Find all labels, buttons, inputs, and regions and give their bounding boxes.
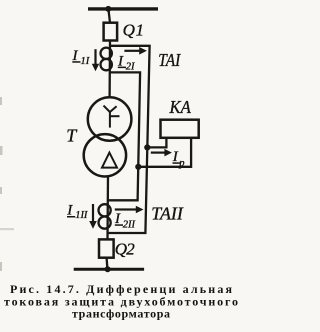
wire: transformer to TAII [106,176,109,240]
svg-text:p: p [178,158,184,169]
current arrow Ip (relay current) [151,149,172,157]
svg-text:TAII: TAII [151,204,184,224]
wire: relay left terminal down and to node on outer run [147,138,166,148]
svg-text:1II: 1II [75,210,88,221]
node: relay right to wire junction [135,164,141,170]
relay KA box [161,120,199,138]
current arrow I2II (right, secondary TAII) [115,206,144,214]
wye (star) symbol inside primary [104,106,120,128]
bus bar (top supply busbar) [88,7,158,10]
wire: relay right terminal down and to node on inner run [138,138,191,167]
current arrow I2I (right, secondary TA1) [124,47,146,55]
wire: busbar to Q1 [108,9,110,23]
transformer T primary winding circle [88,97,132,141]
wire: Q1 to transformer primary [108,41,111,99]
svg-text:2II: 2II [123,219,136,230]
svg-text:2I: 2I [126,61,135,72]
faint scan marks (left edge) [0,97,14,271]
junction dot on bottom busbar [105,266,111,272]
current transformer TA1 (primary winding loops) [101,48,112,59]
transformer T secondary winding circle [84,134,126,176]
svg-text:KA: KA [169,97,192,117]
wire: Q2 to bottom busbar [105,258,108,269]
current arrow I1I (down) [92,49,99,71]
wire: TA1 secondary terminal b (bottom) to inner vertical run [108,72,140,200]
svg-text:Q1: Q1 [123,20,144,39]
svg-text:TAI: TAI [158,50,181,70]
svg-text:трансформатора: трансформатора [72,307,170,321]
junction dot on top busbar [105,6,111,12]
node: relay left to wire junction [144,144,150,150]
current arrow I1II (down) [89,204,97,229]
bottom busbar [74,268,144,271]
circuit breaker Q1 [104,23,118,41]
wire: TA1 secondary terminal a (top) to right vertical run [108,46,149,233]
svg-text:1I: 1I [81,56,90,67]
circuit breaker Q2 [99,239,114,257]
delta symbol inside secondary [102,153,117,168]
svg-text:Q2: Q2 [115,240,136,259]
current transformer TAII (primary winding loops) [99,204,111,216]
